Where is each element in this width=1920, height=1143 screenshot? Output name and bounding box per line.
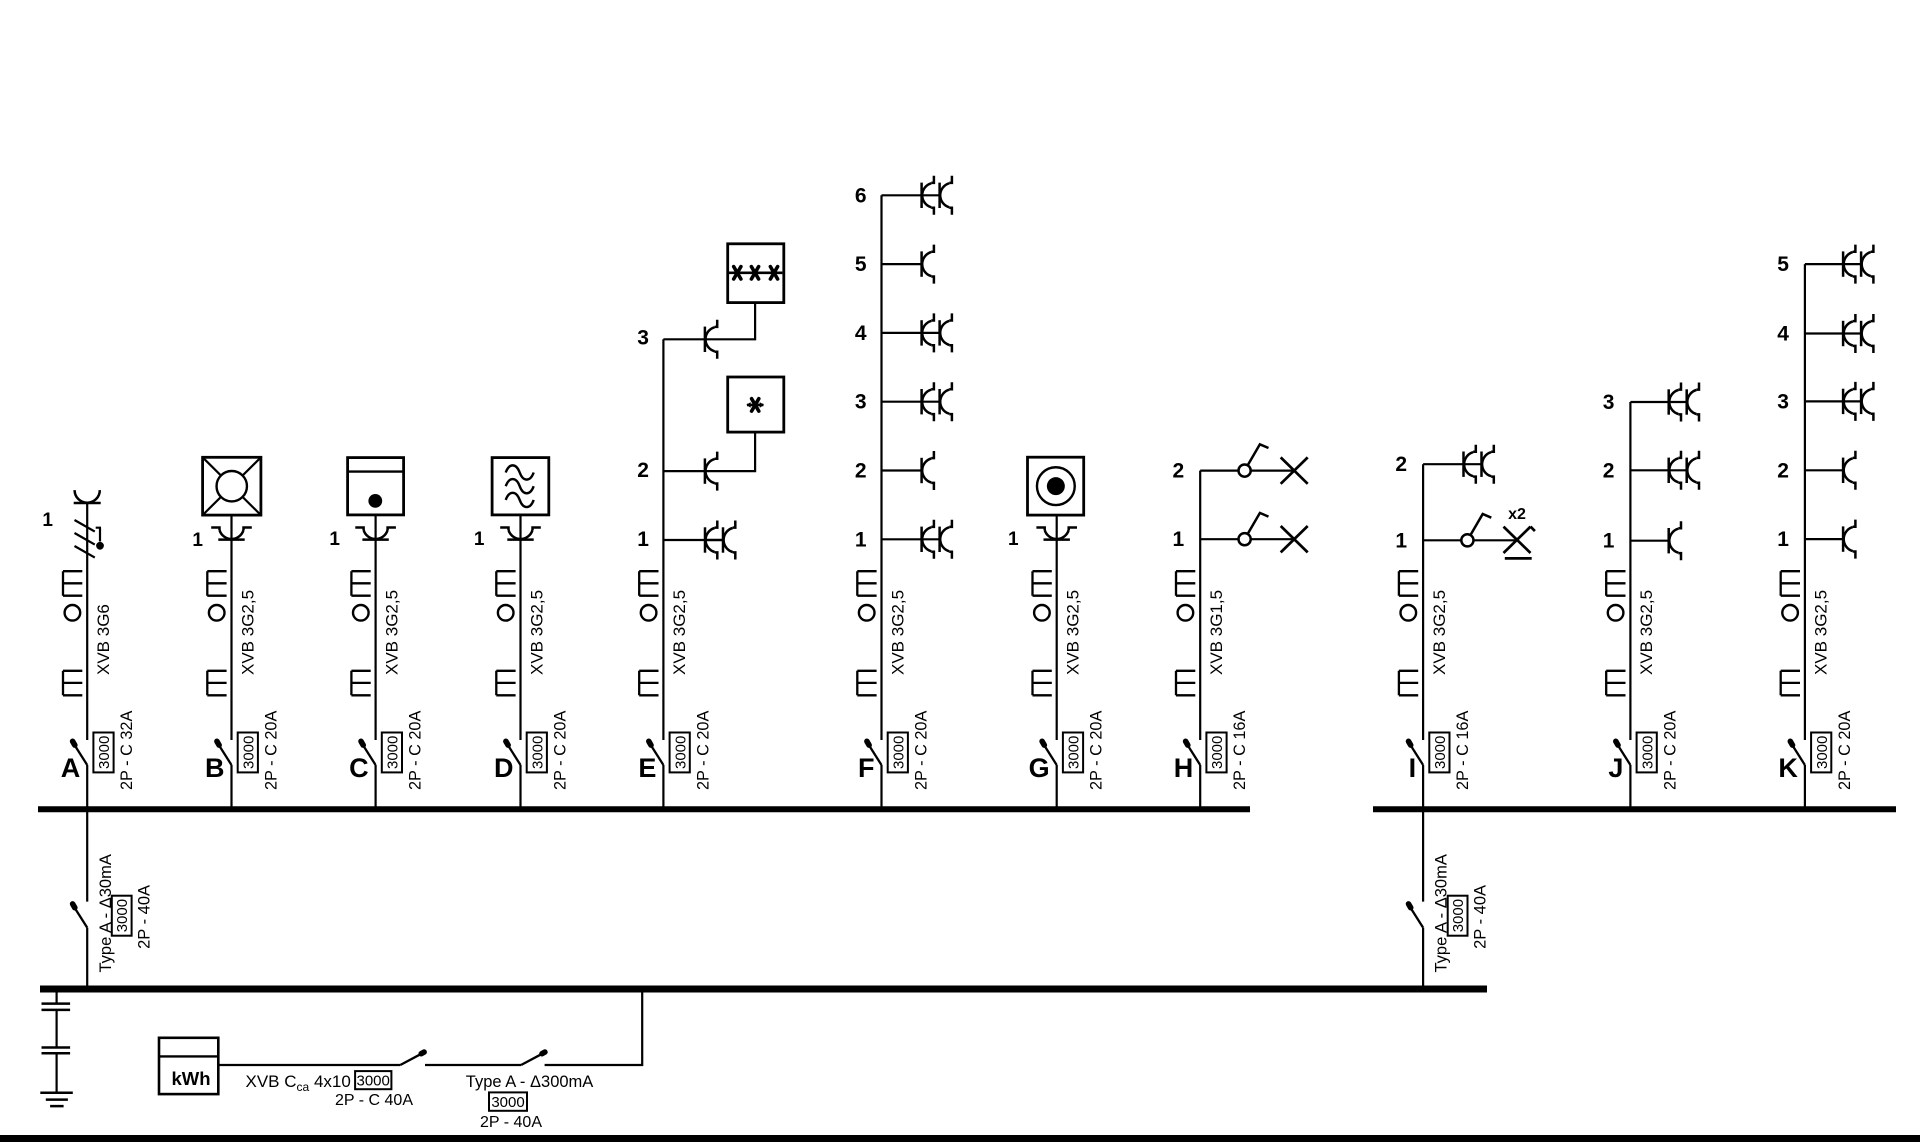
conduit marks circuit D xyxy=(496,571,515,695)
circuit breaker A xyxy=(73,741,88,765)
wire tap 2 circuit H xyxy=(1200,470,1238,472)
svg-text:5: 5 xyxy=(855,253,867,276)
socket tap 3 circuit F xyxy=(922,382,952,421)
bus bar upper left xyxy=(38,806,1250,812)
circuit breaker J xyxy=(1616,741,1631,765)
appliance box boiler circuit G xyxy=(1028,457,1084,515)
wire circuit G lower segment xyxy=(1056,765,1058,812)
wire circuit J upper segment xyxy=(1629,402,1631,740)
wire circuit B upper segment xyxy=(230,515,232,740)
svg-text:C: C xyxy=(349,753,369,783)
svg-text:3000: 3000 xyxy=(1450,899,1467,932)
wire switch to lamp tap 1 circuit H xyxy=(1251,538,1295,540)
svg-text:4: 4 xyxy=(1777,323,1789,346)
wire circuit E upper segment xyxy=(662,339,664,740)
svg-text:2P - C 32A: 2P - C 32A xyxy=(118,711,136,790)
svg-text:2: 2 xyxy=(1777,459,1789,482)
socket outlet circuit A xyxy=(74,490,101,503)
conduit marks circuit I xyxy=(1399,571,1418,695)
svg-text:B: B xyxy=(205,753,225,783)
conduit marks circuit E xyxy=(639,571,658,695)
wire RCD right upper segment xyxy=(1422,812,1424,902)
lamp tap 2 circuit H xyxy=(1281,457,1308,483)
svg-text:2P - 40A: 2P - 40A xyxy=(480,1114,542,1131)
wire circuit I upper segment xyxy=(1422,464,1424,740)
conduit marks circuit B xyxy=(207,571,226,695)
circuit breaker I xyxy=(1409,741,1424,765)
wire tap 2 circuit F xyxy=(882,469,922,471)
svg-text:6: 6 xyxy=(855,184,867,207)
main breaker 40A xyxy=(400,1052,424,1065)
svg-text:2: 2 xyxy=(1395,453,1407,476)
svg-text:XVB 3G2,5: XVB 3G2,5 xyxy=(527,590,546,675)
socket tap 2 circuit J xyxy=(1669,451,1699,490)
svg-text:2: 2 xyxy=(855,460,867,483)
svg-text:3000: 3000 xyxy=(1209,736,1226,769)
RCD rating box 3000 left xyxy=(112,896,132,936)
svg-text:3000: 3000 xyxy=(1814,736,1831,769)
svg-text:XVB 3G2,5: XVB 3G2,5 xyxy=(1430,590,1449,675)
conduit marks circuit H xyxy=(1176,571,1195,695)
svg-text:2P - C 20A: 2P - C 20A xyxy=(263,711,281,790)
wire tap 2 circuit I xyxy=(1423,463,1481,465)
breaker rating box 3000 circuit I xyxy=(1429,733,1449,773)
earth branch circuit A xyxy=(96,528,101,542)
circuit breaker C xyxy=(361,741,376,765)
svg-text:K: K xyxy=(1778,753,1798,783)
svg-text:2: 2 xyxy=(1173,460,1185,483)
svg-text:3: 3 xyxy=(855,391,867,414)
socket tap 4 circuit K xyxy=(1843,314,1873,353)
conduit marks circuit G xyxy=(1033,571,1052,695)
conduit marks circuit K xyxy=(1781,571,1800,695)
svg-text:1: 1 xyxy=(192,530,203,551)
wire tap 2 circuit J xyxy=(1630,469,1686,471)
wire tap 1 circuit J xyxy=(1630,540,1668,542)
svg-text:2P - C 20A: 2P - C 20A xyxy=(913,711,931,790)
socket outlet circuit B xyxy=(211,528,252,540)
main distribution bus xyxy=(40,986,1487,993)
wire circuit I lower segment xyxy=(1422,765,1424,812)
wire tap 1 circuit E xyxy=(663,539,705,541)
socket outlet circuit G xyxy=(1036,528,1077,540)
wire kWh to main breaker xyxy=(218,1064,400,1066)
svg-text:1: 1 xyxy=(855,528,867,551)
socket tap 1 circuit J xyxy=(1669,521,1681,560)
circuit breaker F xyxy=(867,741,882,765)
socket tap 3 circuit J xyxy=(1669,383,1699,422)
wire circuit B lower segment xyxy=(230,765,232,812)
socket tap 5 circuit K xyxy=(1843,245,1873,284)
circuit breaker K xyxy=(1790,741,1805,765)
svg-text:3: 3 xyxy=(1603,391,1615,414)
wire tap 1 circuit F xyxy=(882,538,940,540)
wire circuit K lower segment xyxy=(1804,765,1806,812)
wire circuit J lower segment xyxy=(1629,765,1631,812)
wire main breaker to main RCD xyxy=(425,1064,521,1066)
circuit breaker D xyxy=(506,741,521,765)
main RCD rating box 3000 xyxy=(489,1092,527,1110)
wire circuit A upper segment xyxy=(86,503,88,740)
wire switch to lamp tap 1 circuit I xyxy=(1474,539,1518,541)
wire tap 2 circuit K xyxy=(1805,469,1843,471)
svg-text:XVB 3G2,5: XVB 3G2,5 xyxy=(1064,590,1083,675)
conduit marks circuit J xyxy=(1606,571,1625,695)
switch tap 1 circuit H xyxy=(1239,513,1269,545)
wire tap 3 circuit F xyxy=(882,401,940,403)
wall lamp tap 1 circuit I xyxy=(1504,527,1535,559)
appliance box fan circuit B xyxy=(203,457,261,515)
svg-text:1: 1 xyxy=(42,510,53,531)
svg-text:3000: 3000 xyxy=(672,736,689,769)
wire tap 4 circuit F xyxy=(882,332,940,334)
svg-text:2P - C 16A: 2P - C 16A xyxy=(1454,711,1472,790)
svg-text:1: 1 xyxy=(1603,530,1615,553)
svg-text:1: 1 xyxy=(1008,529,1019,550)
socket tap 2 circuit K xyxy=(1843,451,1855,490)
svg-text:3000: 3000 xyxy=(385,736,402,769)
svg-text:2: 2 xyxy=(1603,459,1615,482)
breaker rating box 3000 circuit G xyxy=(1063,733,1083,773)
svg-text:4: 4 xyxy=(855,322,867,345)
svg-text:2P - C 20A: 2P - C 20A xyxy=(552,711,570,790)
wire circuit G upper segment xyxy=(1056,515,1058,740)
socket tap 3 circuit E xyxy=(705,320,717,359)
svg-text:3000: 3000 xyxy=(96,736,113,769)
lamp tap 1 circuit H xyxy=(1281,526,1308,552)
circuit breaker H xyxy=(1186,741,1201,765)
svg-text:1: 1 xyxy=(1173,528,1185,551)
svg-text:XVB 3G2,5: XVB 3G2,5 xyxy=(670,590,689,675)
breaker rating box 3000 circuit K xyxy=(1811,733,1831,773)
appliance box washing machine circuit C xyxy=(348,458,404,515)
svg-text:2P - C 20A: 2P - C 20A xyxy=(1088,711,1106,790)
svg-text:3000: 3000 xyxy=(491,1094,524,1111)
svg-text:1: 1 xyxy=(474,529,485,550)
svg-text:5: 5 xyxy=(1777,253,1789,276)
svg-text:XVB 3G2,5: XVB 3G2,5 xyxy=(1812,590,1831,675)
RCD rating box 3000 right xyxy=(1448,896,1468,936)
socket tap 6 circuit F xyxy=(922,176,952,215)
wire RCD left upper segment xyxy=(86,812,88,902)
svg-text:J: J xyxy=(1608,753,1623,783)
svg-text:3000: 3000 xyxy=(529,736,546,769)
wire circuit F lower segment xyxy=(880,765,882,812)
svg-text:3000: 3000 xyxy=(240,736,257,769)
svg-text:XVB 3G2,5: XVB 3G2,5 xyxy=(888,590,907,675)
svg-text:kWh: kWh xyxy=(171,1068,210,1089)
wire tap 6 circuit F xyxy=(882,194,940,196)
wire tap 3 circuit E xyxy=(663,303,755,340)
svg-text:3000: 3000 xyxy=(114,899,131,932)
svg-text:3000: 3000 xyxy=(357,1073,390,1090)
socket tap 1 circuit F xyxy=(922,520,952,559)
circuit breaker E xyxy=(649,741,664,765)
double socket tap 1 circuit E xyxy=(705,521,735,560)
bottom border bar xyxy=(0,1135,1920,1142)
socket tap 4 circuit F xyxy=(922,313,952,352)
wire circuit C lower segment xyxy=(375,765,377,812)
svg-text:1: 1 xyxy=(329,529,340,550)
wire RCD right lower segment xyxy=(1422,928,1424,992)
svg-text:2: 2 xyxy=(637,459,649,482)
earth electrode wire segments xyxy=(55,992,57,1093)
wire circuit A lower segment xyxy=(86,765,88,812)
svg-text:3000: 3000 xyxy=(1432,736,1449,769)
appliance box dryer circuit D xyxy=(492,458,549,515)
switch tap 2 circuit H xyxy=(1239,444,1269,476)
svg-text:3000: 3000 xyxy=(1066,736,1083,769)
wire circuit D lower segment xyxy=(519,765,521,812)
socket outlet circuit C xyxy=(355,528,396,540)
wire tap 5 circuit K xyxy=(1805,263,1861,265)
svg-text:XVB 3G2,5: XVB 3G2,5 xyxy=(382,590,401,675)
wire circuit F upper segment xyxy=(880,195,882,740)
breaker rating box 3000 circuit E xyxy=(670,733,690,773)
breaker rating box 3000 circuit C xyxy=(382,733,402,773)
freezer box circuit E xyxy=(728,244,784,303)
RCD switch left xyxy=(73,904,88,928)
refrigerator box circuit E xyxy=(728,377,784,432)
svg-text:3000: 3000 xyxy=(890,736,907,769)
svg-text:G: G xyxy=(1029,753,1050,783)
conduit marks circuit C xyxy=(351,571,370,695)
svg-text:2P - C 20A: 2P - C 20A xyxy=(407,711,425,790)
svg-text:2P - 40A: 2P - 40A xyxy=(136,885,154,949)
switch tap 1 circuit I xyxy=(1461,514,1491,546)
svg-text:XVB 3G2,5: XVB 3G2,5 xyxy=(1637,590,1656,675)
breaker rating box 3000 circuit D xyxy=(527,733,547,773)
svg-text:E: E xyxy=(638,753,656,783)
socket tap 1 circuit K xyxy=(1843,520,1855,559)
svg-text:2P - C 20A: 2P - C 20A xyxy=(694,711,712,790)
socket tap 2 circuit F xyxy=(922,451,934,490)
svg-text:Type A - Δ300mA: Type A - Δ300mA xyxy=(466,1073,594,1091)
conduit marks circuit A xyxy=(63,571,82,695)
wire tap 4 circuit K xyxy=(1805,332,1861,334)
wire tap 1 circuit K xyxy=(1805,538,1843,540)
svg-text:1: 1 xyxy=(1777,528,1789,551)
wire RCD left lower segment xyxy=(86,928,88,992)
socket outlet circuit D xyxy=(500,528,541,540)
main breaker rating box 3000 xyxy=(355,1071,391,1089)
svg-text:2P - C 40A: 2P - C 40A xyxy=(335,1092,413,1109)
RCD switch right xyxy=(1409,904,1424,928)
wire switch to lamp tap 2 circuit H xyxy=(1251,470,1295,472)
svg-text:1: 1 xyxy=(637,528,649,551)
circuit breaker B xyxy=(217,741,232,765)
wire circuit C upper segment xyxy=(375,515,377,740)
svg-text:2P - C 16A: 2P - C 16A xyxy=(1231,711,1249,790)
svg-text:XVB 3G1,5: XVB 3G1,5 xyxy=(1207,590,1226,675)
svg-text:3000: 3000 xyxy=(1639,736,1656,769)
svg-text:H: H xyxy=(1174,753,1194,783)
wire circuit H upper segment xyxy=(1199,471,1201,740)
kWh meter xyxy=(159,1038,218,1094)
svg-text:I: I xyxy=(1409,753,1417,783)
wire tap 1 circuit H xyxy=(1200,538,1238,540)
wire circuit H lower segment xyxy=(1199,765,1201,812)
wire tap 2 circuit E xyxy=(663,432,755,471)
wire tap 3 circuit J xyxy=(1630,401,1686,403)
svg-text:F: F xyxy=(858,753,875,783)
breaker rating box 3000 circuit J xyxy=(1637,733,1657,773)
svg-text:XVB 3G2,5: XVB 3G2,5 xyxy=(238,590,257,675)
main RCD 300mA xyxy=(521,1052,545,1065)
wire main RCD to main bus xyxy=(545,992,643,1065)
socket tap 2 circuit E xyxy=(705,452,717,491)
svg-text:D: D xyxy=(494,753,514,783)
svg-text:3: 3 xyxy=(637,327,649,350)
breaker rating box 3000 circuit H xyxy=(1206,733,1226,773)
double socket tap 2 circuit I xyxy=(1464,445,1494,484)
wire tap 3 circuit K xyxy=(1805,400,1861,402)
breaker rating box 3000 circuit F xyxy=(888,733,908,773)
svg-text:XVB 3G6: XVB 3G6 xyxy=(94,604,113,675)
wire circuit K upper segment xyxy=(1804,264,1806,740)
conduit marks circuit F xyxy=(857,571,876,695)
breaker rating box 3000 circuit B xyxy=(238,733,258,773)
svg-text:3: 3 xyxy=(1777,390,1789,413)
svg-text:A: A xyxy=(61,753,81,783)
socket tap 3 circuit K xyxy=(1843,382,1873,421)
breaker rating box 3000 circuit A xyxy=(93,733,113,773)
svg-text:2P - 40A: 2P - 40A xyxy=(1472,885,1490,949)
circuit breaker G xyxy=(1042,741,1057,765)
svg-text:1: 1 xyxy=(1395,529,1407,552)
socket tap 5 circuit F xyxy=(922,245,934,284)
wire tap 1 circuit I xyxy=(1423,539,1461,541)
wire circuit D upper segment xyxy=(519,515,521,740)
conductor slashes circuit A xyxy=(75,520,95,558)
earth electrode plates xyxy=(42,1004,71,1054)
wire circuit E lower segment xyxy=(662,765,664,812)
ground symbol xyxy=(40,1093,73,1106)
svg-text:2P - C 20A: 2P - C 20A xyxy=(1836,711,1854,790)
bus bar upper right xyxy=(1373,806,1896,812)
svg-text:2P - C 20A: 2P - C 20A xyxy=(1661,711,1679,790)
svg-text:x2: x2 xyxy=(1508,506,1526,523)
wire tap 5 circuit F xyxy=(882,263,922,265)
